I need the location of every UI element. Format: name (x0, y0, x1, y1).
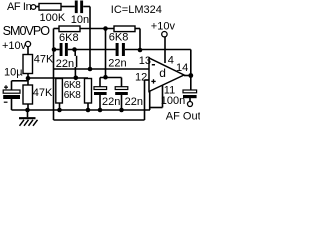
svg-text:IC=LM324: IC=LM324 (111, 4, 162, 16)
svg-text:SM0VPO: SM0VPO (3, 24, 51, 38)
svg-text:AF Out: AF Out (166, 111, 200, 123)
svg-text:10n: 10n (71, 14, 89, 26)
svg-text:4: 4 (168, 55, 174, 67)
svg-text:22n: 22n (102, 96, 120, 108)
svg-text:+10v: +10v (2, 40, 27, 52)
svg-text:22n: 22n (125, 96, 143, 108)
svg-text:100K: 100K (40, 12, 66, 24)
svg-text:+10v: +10v (151, 21, 176, 33)
svg-text:AF In: AF In (7, 1, 32, 13)
svg-text:100n: 100n (161, 95, 185, 107)
svg-text:6K8: 6K8 (59, 32, 79, 44)
svg-text:12: 12 (135, 72, 147, 84)
svg-text:13: 13 (139, 55, 151, 67)
svg-text:14: 14 (176, 62, 188, 74)
svg-text:6K8: 6K8 (109, 32, 129, 44)
svg-text:47K: 47K (34, 54, 54, 66)
svg-text:d: d (159, 66, 166, 80)
svg-text:47K: 47K (33, 87, 53, 99)
svg-text:22n: 22n (108, 57, 126, 69)
svg-text:6K8: 6K8 (64, 90, 81, 101)
svg-text:10µ: 10µ (4, 67, 23, 79)
svg-text:22n: 22n (56, 58, 74, 70)
